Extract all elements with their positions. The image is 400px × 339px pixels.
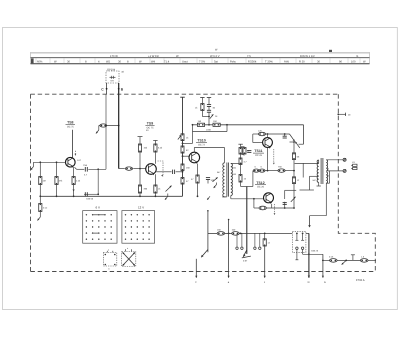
svg-text:TS11: TS11 bbox=[254, 149, 262, 153]
dashed schematic border bbox=[31, 94, 376, 271]
resistor 150 a bbox=[197, 120, 204, 127]
transistor TS8 label bbox=[67, 121, 75, 129]
svg-text:5at: 5at bbox=[214, 61, 218, 64]
ground on bus bbox=[207, 196, 210, 200]
right block wires bbox=[295, 162, 319, 164]
transistor TS12 bbox=[264, 193, 274, 203]
svg-text:50: 50 bbox=[327, 175, 329, 178]
svg-text:D: D bbox=[308, 281, 310, 284]
svg-text:C98 25: C98 25 bbox=[311, 249, 319, 252]
trimmer arrow bbox=[210, 114, 214, 118]
svg-text:1040: 1040 bbox=[206, 128, 212, 131]
transistor TS11 bbox=[263, 138, 273, 148]
wire C line down bbox=[105, 94, 107, 169]
resistor R61 column bbox=[153, 141, 163, 164]
svg-text:OC 72: OC 72 bbox=[198, 143, 206, 146]
resistor R60 column bbox=[138, 137, 148, 198]
transistor TS10 label bbox=[197, 139, 205, 147]
wire B line down bbox=[118, 94, 120, 168]
oval resistor bus a bbox=[217, 229, 225, 236]
svg-text:OC 26: OC 26 bbox=[257, 186, 265, 189]
oval resistor TS12 emitter bbox=[259, 206, 267, 210]
svg-text:T 30%: T 30% bbox=[265, 61, 273, 64]
pot arrow TS11 right bbox=[295, 142, 300, 148]
svg-text:12 V: 12 V bbox=[138, 205, 144, 209]
ground R55 bbox=[37, 217, 40, 221]
wire y143 to loop bbox=[183, 142, 193, 144]
speaker return wire bbox=[325, 183, 327, 216]
loop wire bbox=[193, 131, 228, 133]
secondary taps bbox=[326, 159, 343, 161]
resistor 2 on x182 bbox=[181, 146, 184, 153]
ground bus lower left bbox=[40, 195, 182, 197]
TS11 feed wire y134 bbox=[253, 133, 259, 135]
main wire y125 bbox=[193, 124, 198, 126]
transistor TS12 label bbox=[256, 181, 264, 189]
svg-text:W2: W2 bbox=[106, 61, 111, 64]
connector view box plain bbox=[103, 253, 117, 267]
pickup inset box bbox=[101, 68, 124, 94]
electrolytic caps x209 bbox=[207, 98, 216, 126]
transistor TS10 bbox=[189, 152, 200, 163]
arrow end y134 bbox=[290, 134, 295, 141]
resistor R55 below bus bbox=[39, 196, 48, 217]
svg-text:DIN W 1 1/2: DIN W 1 1/2 bbox=[300, 55, 315, 58]
connector view box X bbox=[122, 252, 136, 267]
divider line x202 bbox=[195, 98, 209, 117]
dashed link TS12 bbox=[274, 204, 276, 215]
C98 wire bbox=[303, 253, 323, 255]
transistor TS9 bbox=[146, 164, 157, 175]
resistor 150 b bbox=[213, 120, 220, 127]
E line with 0.15 wire bbox=[322, 254, 324, 277]
connector box bbox=[292, 231, 306, 252]
pot arrow TS12 bbox=[291, 197, 296, 202]
left leg x207.9 bbox=[207, 210, 209, 212]
svg-text:at: at bbox=[122, 71, 124, 74]
dashed link TS11 bbox=[273, 149, 275, 164]
driver transformer bbox=[223, 163, 233, 197]
TS10 emitter chain bbox=[197, 164, 199, 176]
resistor R57 bbox=[55, 161, 63, 196]
svg-text:100: 100 bbox=[351, 61, 356, 64]
secondary bottom wire to TS12 base bbox=[230, 196, 232, 199]
svg-text:OC 75: OC 75 bbox=[67, 126, 75, 129]
transistor TS8 bbox=[66, 157, 76, 167]
resistor column x294 bbox=[290, 141, 295, 143]
TS12 emitter bus bbox=[254, 207, 259, 209]
capacitor C60 bbox=[172, 170, 174, 174]
resistor R58 bbox=[72, 167, 81, 196]
svg-text:W 6.3 V: W 6.3 V bbox=[210, 55, 220, 58]
TS11 base feed bbox=[252, 134, 254, 143]
cap below y134 bbox=[284, 134, 286, 136]
resistor R-in oval bbox=[100, 124, 107, 127]
output terminal circles bbox=[343, 158, 346, 161]
oval resistor 750 bbox=[278, 166, 285, 173]
TS12 coupling line down bbox=[246, 187, 248, 254]
crystal element inside bbox=[110, 76, 116, 78]
TS11 emitter down bbox=[267, 147, 269, 170]
svg-text:50: 50 bbox=[327, 168, 329, 171]
four contact circles bbox=[236, 233, 261, 249]
wire input top bbox=[99, 125, 119, 127]
parts table bbox=[31, 52, 370, 63]
svg-text:170 W: 170 W bbox=[110, 55, 118, 58]
loudspeaker icon bbox=[351, 164, 357, 169]
node B bbox=[118, 83, 120, 94]
svg-text:30: 30 bbox=[67, 61, 70, 64]
TS8 emitter wire to right bbox=[75, 167, 77, 169]
TS8 base wire bbox=[34, 161, 66, 163]
TS10 base wire bbox=[183, 155, 190, 157]
tick above table bbox=[329, 50, 332, 52]
ground left of C bbox=[98, 126, 100, 131]
supply line x182 bbox=[180, 96, 185, 98]
terminal stub F bbox=[195, 259, 197, 278]
leg x228.6 bbox=[228, 219, 230, 221]
capacitor C56 bbox=[84, 167, 86, 172]
oval resistor bus b bbox=[232, 229, 240, 236]
svg-text:Uout: Uout bbox=[182, 61, 188, 64]
svg-text:6 V: 6 V bbox=[96, 205, 101, 209]
svg-text:TS12: TS12 bbox=[256, 181, 264, 185]
TS9 emitter wire right bbox=[156, 171, 171, 173]
resistor x264.7 bbox=[264, 233, 266, 238]
oval resistor 1.5 bbox=[360, 256, 368, 263]
svg-text:60%: 60% bbox=[37, 61, 43, 64]
svg-text:W4: W4 bbox=[151, 61, 156, 64]
wire C jog down bbox=[97, 169, 99, 194]
svg-text:7.5: 7.5 bbox=[247, 55, 251, 58]
ground TS10 bbox=[216, 183, 218, 185]
ground TS9 bbox=[167, 194, 169, 197]
oval resistor 0.15 bbox=[329, 256, 337, 263]
dashed link TS9 bbox=[158, 161, 164, 177]
dashed link TS8 bbox=[74, 151, 76, 156]
TS10 collector wire to transformer bbox=[193, 148, 195, 153]
svg-text:30: 30 bbox=[118, 61, 121, 64]
TS8 collector wire bbox=[71, 130, 73, 158]
svg-text:E: E bbox=[324, 281, 326, 284]
transistor TS11 label bbox=[254, 149, 262, 157]
resistor R56 bbox=[39, 161, 46, 196]
pot arrow TS10 bbox=[213, 177, 218, 181]
svg-text:R 30: R 30 bbox=[299, 61, 305, 64]
resistor on x182 bbox=[181, 134, 184, 141]
svg-text:7 5%: 7 5% bbox=[199, 61, 206, 64]
svg-text:71.4: 71.4 bbox=[164, 61, 170, 64]
svg-text:F/2504: F/2504 bbox=[248, 61, 257, 64]
TS9 collector resistor bbox=[154, 174, 161, 197]
emitter resistor wire bbox=[252, 170, 254, 172]
D line bbox=[306, 232, 309, 234]
thermistor arrow bbox=[178, 135, 181, 139]
svg-text:TS10: TS10 bbox=[197, 139, 205, 143]
bottom supply bus bbox=[208, 232, 217, 234]
table row2 text bbox=[37, 61, 366, 64]
table row1 text bbox=[110, 55, 359, 58]
svg-text:+1 W Fm: +1 W Fm bbox=[148, 55, 160, 58]
svg-text:TS9: TS9 bbox=[147, 122, 153, 126]
big ground arrow bbox=[243, 250, 247, 257]
output transformer bbox=[317, 158, 328, 184]
table cell separators bbox=[36, 58, 360, 64]
resistor base oval bbox=[125, 167, 132, 170]
transistor TS9 label bbox=[147, 122, 155, 130]
svg-text:%W: %W bbox=[284, 61, 289, 64]
secondary top wire to divider bbox=[231, 162, 241, 164]
divider x240.6 bbox=[238, 144, 253, 186]
oval resistor 5a bbox=[253, 166, 259, 173]
potentiometer arrow bbox=[166, 186, 172, 192]
svg-text:GR: GR bbox=[110, 80, 114, 83]
TS9 base wire bbox=[119, 168, 125, 170]
capacitor C59 bbox=[84, 192, 86, 196]
svg-text:GP204: GP204 bbox=[107, 68, 116, 71]
svg-text:90: 90 bbox=[339, 61, 342, 64]
corner of top wire bbox=[303, 125, 305, 144]
svg-text:F706 A: F706 A bbox=[356, 279, 365, 282]
svg-text:30: 30 bbox=[317, 61, 320, 64]
svg-text:Folw: Folw bbox=[230, 61, 236, 64]
capacitor near TS10 emitter bbox=[206, 177, 210, 179]
svg-text:TS8: TS8 bbox=[67, 121, 73, 125]
ground at input bbox=[33, 162, 35, 166]
svg-text:1M: 1M bbox=[43, 180, 46, 183]
antenna stub top right bbox=[337, 113, 339, 115]
node C bbox=[106, 83, 108, 94]
svg-text:C59 50: C59 50 bbox=[86, 198, 94, 201]
TS11 collector to y134 bbox=[267, 134, 269, 138]
cap at 284.7 bbox=[284, 202, 286, 208]
svg-text:OC 26: OC 26 bbox=[255, 154, 263, 157]
cap right of divider bbox=[247, 150, 251, 152]
oval resistor on y134 bbox=[258, 129, 266, 135]
oval resistor 5b bbox=[259, 166, 265, 173]
